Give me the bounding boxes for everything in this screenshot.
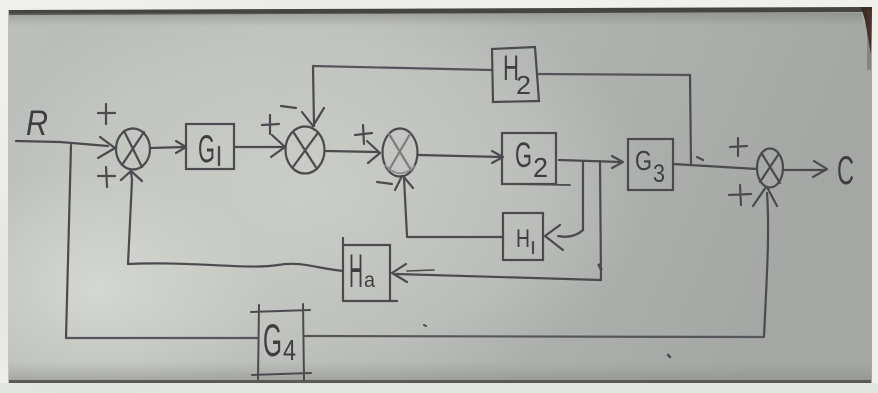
minus sign below-left of S3 bbox=[377, 182, 392, 184]
arrowhead into Ha right side bbox=[392, 264, 407, 282]
label R bbox=[26, 104, 48, 143]
svg-text:2: 2 bbox=[533, 152, 548, 183]
paper top edge dark line bbox=[9, 7, 863, 15]
block G4 bbox=[251, 304, 311, 380]
wire H2 feedback upper run (left segment) bbox=[313, 66, 492, 70]
minus sign above S2 bbox=[281, 106, 296, 108]
wire S1 to G1 bbox=[150, 147, 185, 148]
summing junction S2 bbox=[286, 127, 325, 174]
plus sign above S1 bbox=[98, 104, 115, 124]
block H2 bbox=[492, 47, 539, 102]
svg-text:2: 2 bbox=[516, 70, 531, 100]
wire Ha output to S1 (wavy) bbox=[128, 263, 343, 271]
plus sign below S1 bbox=[98, 167, 115, 187]
plus sign between S2 and S3 bbox=[355, 125, 372, 144]
block G1 bbox=[186, 124, 234, 171]
wire G4 lower run (right) bbox=[304, 336, 763, 337]
wire G1 to summing junction S2 bbox=[234, 146, 284, 148]
wire S3 to G2 bbox=[419, 155, 501, 157]
svg-text:3: 3 bbox=[653, 160, 665, 188]
label C bbox=[837, 149, 854, 193]
arrowhead into S3 bbox=[367, 141, 380, 163]
plus sign below-left of S4 bbox=[729, 185, 751, 205]
wire G3 to summing junction S4 bbox=[673, 164, 757, 169]
block G2 bbox=[502, 133, 570, 185]
svg-text:R: R bbox=[26, 104, 48, 143]
block Ha bbox=[343, 238, 397, 301]
svg-text:G: G bbox=[263, 315, 282, 366]
svg-text:C: C bbox=[837, 149, 854, 193]
arrowhead into summing junction S1 bbox=[98, 137, 115, 158]
arrowhead into G1 bbox=[176, 141, 186, 153]
wire S4 to output C bbox=[783, 169, 826, 171]
wire G4 feedforward up into S4 bbox=[764, 193, 768, 337]
summing junction S1 bbox=[116, 129, 150, 170]
svg-text:4: 4 bbox=[283, 335, 296, 367]
svg-text:G: G bbox=[515, 136, 532, 175]
svg-text:G: G bbox=[198, 128, 215, 171]
stray pencil speck bbox=[424, 325, 426, 326]
block G3 bbox=[628, 139, 673, 190]
wire H1 output to S3 bbox=[407, 236, 503, 238]
wire S2 to summing junction S3 bbox=[326, 151, 378, 152]
stray pencil speck 2 bbox=[668, 355, 670, 357]
wire H2 feedback upper run (right segment) bbox=[539, 74, 690, 75]
arrowhead down into S2 top bbox=[302, 108, 324, 126]
wire Ha input run from tap bbox=[396, 274, 601, 280]
arrowhead into G2 bbox=[492, 151, 503, 163]
arrowhead up into S1 bottom bbox=[121, 171, 142, 181]
plus sign above S4 bbox=[730, 138, 747, 156]
wire H2 feedback drop into S2 bbox=[313, 66, 314, 126]
wire Ha input double stroke bbox=[407, 270, 434, 271]
paper bottom edge bbox=[9, 362, 871, 381]
node dot after G3 bbox=[697, 157, 703, 160]
node tap to H1 bbox=[582, 161, 584, 230]
node dot at Ha tap bbox=[599, 265, 601, 269]
node tap to G4 bbox=[66, 145, 71, 338]
wire Ha riser up into S1 bbox=[128, 172, 132, 264]
svg-text:H: H bbox=[516, 225, 530, 253]
wire R input line bbox=[16, 141, 108, 146]
arrowhead at C bbox=[813, 161, 827, 177]
svg-text:H: H bbox=[349, 244, 363, 297]
plus sign left of S2 bbox=[262, 115, 279, 134]
wire G4 lower run (left) bbox=[66, 337, 257, 339]
wire H1 input from tap bbox=[558, 230, 583, 237]
arrowhead into H1 right side bbox=[545, 225, 563, 250]
arrowhead into G3 bbox=[612, 156, 623, 168]
arrowhead into S2 bbox=[271, 135, 285, 157]
block H1 bbox=[503, 213, 543, 260]
summing junction S4 bbox=[757, 149, 783, 188]
top-right dark corner sliver bbox=[861, 7, 872, 55]
arrowhead up into S4 bottom bbox=[753, 187, 777, 206]
summing junction S3 bbox=[383, 129, 418, 177]
svg-text:a: a bbox=[364, 269, 375, 292]
wire H1 feedback up into S3 bbox=[404, 178, 407, 236]
svg-text:G: G bbox=[635, 145, 652, 176]
wire H2 tap drop from G3 output bbox=[690, 75, 691, 164]
arrowhead up into S3 bottom bbox=[395, 176, 413, 190]
node tap to Ha bbox=[600, 161, 601, 280]
wire G2 to G3 bbox=[559, 160, 621, 162]
